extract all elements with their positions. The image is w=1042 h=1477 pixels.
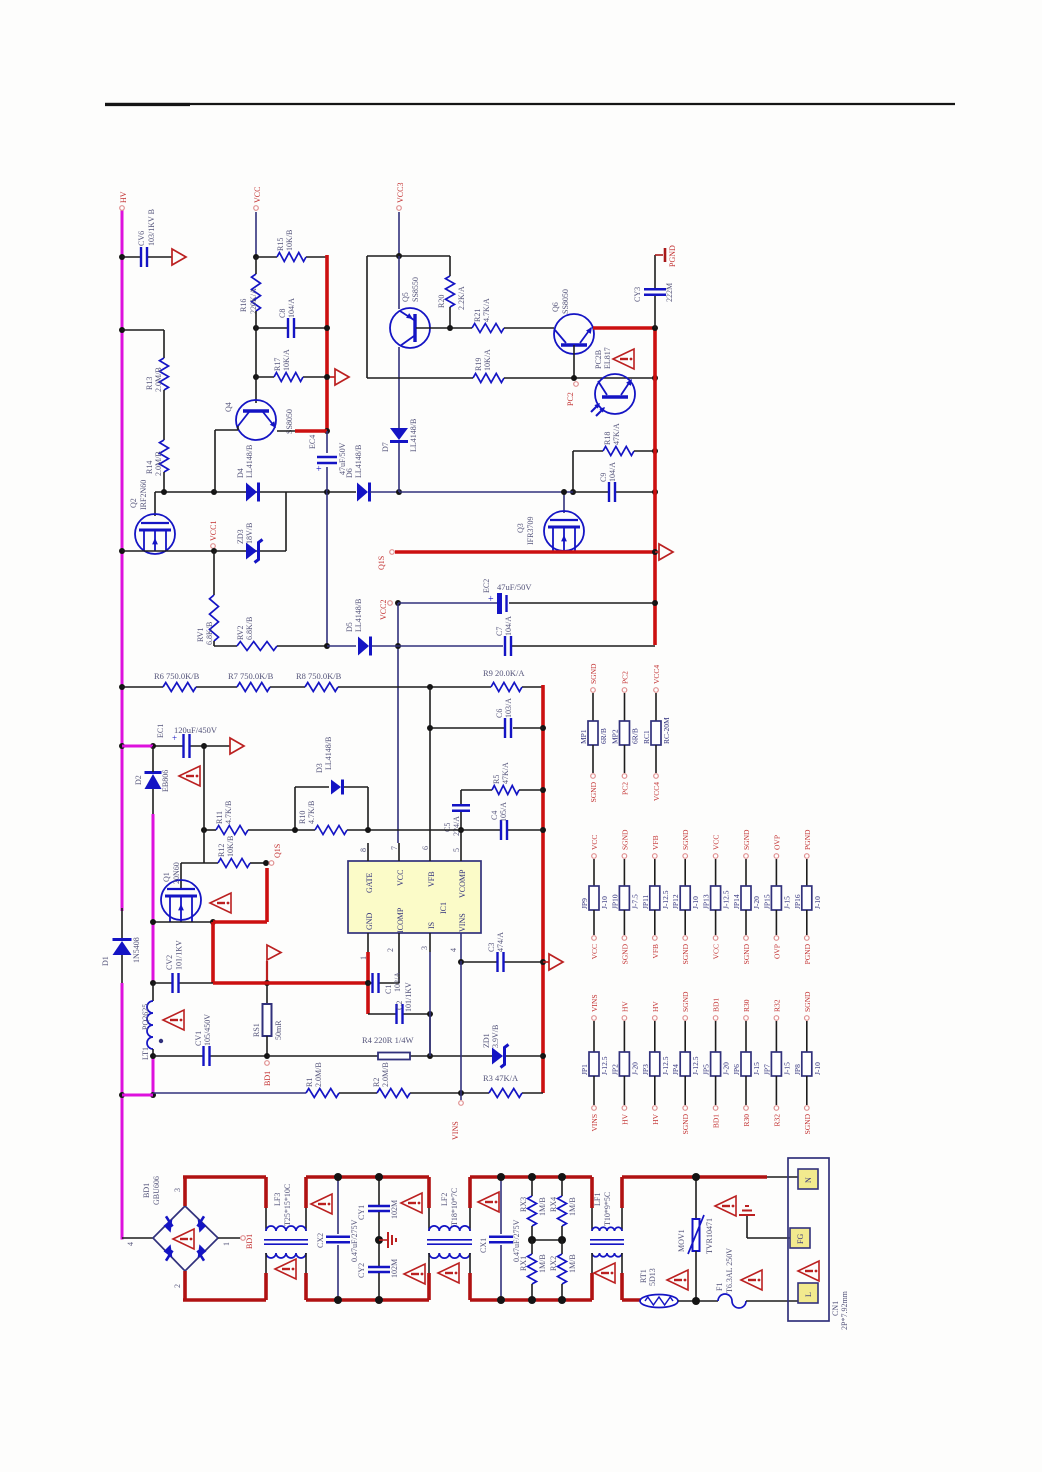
resistor R16 (239, 274, 261, 314)
wire EC4 bottom (326, 467, 328, 646)
wire Q2 gate row (122, 550, 214, 552)
warning triangle LF3 top (311, 1194, 332, 1214)
capacitor CV6 (137, 209, 156, 267)
diode D1 (101, 937, 141, 966)
svg-text:101/1KV: 101/1KV (404, 982, 413, 1012)
svg-text:4: 4 (449, 948, 458, 952)
wire Q6 emitter red (593, 326, 655, 330)
svg-text:LL4148/B: LL4148/B (245, 445, 254, 478)
svg-text:SGND: SGND (681, 1113, 690, 1134)
node pin4 (458, 959, 464, 965)
warning triangle LF3 bottom (275, 1259, 296, 1279)
svg-text:2.0M/B: 2.0M/B (154, 367, 163, 392)
svg-text:D2: D2 (134, 775, 143, 785)
svg-text:HV: HV (651, 1113, 660, 1124)
jumper JP5 (702, 998, 731, 1129)
resistor R20 (437, 276, 466, 310)
svg-text:6.8K/B: 6.8K/B (245, 617, 254, 640)
svg-text:J-10: J-10 (600, 896, 609, 909)
svg-text:RC-20M: RC-20M (662, 717, 671, 744)
wire Q4 emitter red (277, 430, 327, 432)
warning triangle RT1 (667, 1270, 688, 1290)
terminal VCC (253, 187, 262, 211)
svg-text:JP9: JP9 (580, 898, 589, 909)
wire D2 top (152, 746, 154, 772)
svg-text:103/1KV B: 103/1KV B (147, 209, 156, 246)
IC U1 pin stubs top (368, 843, 461, 861)
svg-text:R3 47K/A: R3 47K/A (483, 1073, 519, 1083)
svg-text:R5: R5 (492, 775, 501, 784)
wire HV trunk magenta lower (121, 983, 124, 1240)
wire RS1 bottom (266, 1036, 268, 1056)
node RS1 top (264, 980, 270, 986)
wire VCC3 drop (398, 212, 400, 256)
capacitor C2 (395, 982, 413, 1024)
svg-text:JP11: JP11 (641, 894, 650, 909)
node EC1 (150, 743, 156, 749)
capacitor CY2 (357, 1173, 399, 1304)
wire R11 up (203, 746, 205, 830)
svg-text:RX4: RX4 (549, 1197, 558, 1212)
svg-text:R8 750.0K/B: R8 750.0K/B (296, 671, 342, 681)
terminal PC2 (574, 382, 579, 387)
wire EC4 top (326, 431, 328, 453)
svg-text:10K/A: 10K/A (483, 349, 492, 371)
wire VFB column (429, 687, 431, 843)
svg-text:JP16: JP16 (793, 894, 802, 909)
svg-text:220K/A: 220K/A (249, 288, 258, 314)
resistor R9 (483, 668, 525, 692)
svg-text:D1: D1 (101, 956, 110, 966)
svg-text:102M: 102M (390, 1200, 399, 1219)
warning triangle PC2B (613, 349, 634, 369)
svg-text:HV: HV (651, 1001, 660, 1012)
inductor LT1 primary (141, 983, 163, 1060)
svg-text:HV: HV (119, 191, 128, 203)
terminal VCC3 (396, 183, 405, 211)
svg-text:RX3: RX3 (519, 1197, 528, 1212)
svg-text:N: N (804, 1177, 813, 1183)
capacitor EC4 (308, 435, 347, 475)
svg-text:2.0M/B: 2.0M/B (381, 1062, 390, 1087)
wire GND red (366, 952, 370, 1014)
svg-text:R11: R11 (215, 811, 224, 824)
wire Q1S red row (395, 550, 655, 554)
optocoupler PC2B (591, 347, 635, 416)
wire Q3 drain (563, 492, 565, 513)
resistor RX1 (519, 1240, 547, 1304)
wire Q4 collector (215, 426, 238, 492)
svg-text:OVP: OVP (772, 835, 781, 850)
resistor R10 (298, 801, 347, 835)
transistor Q4 (224, 400, 294, 440)
svg-text:JP5: JP5 (702, 1064, 711, 1075)
svg-text:R6 750.0K/B: R6 750.0K/B (154, 671, 200, 681)
wire VCOMP column (460, 790, 462, 843)
svg-text:JP14: JP14 (732, 894, 741, 909)
capacitor C4 (490, 802, 508, 840)
svg-text:ICOMP: ICOMP (396, 907, 405, 933)
svg-text:VCC: VCC (590, 835, 599, 850)
wire C8 row (256, 327, 327, 329)
svg-text:R14: R14 (145, 461, 154, 474)
svg-text:J-10: J-10 (813, 896, 822, 909)
wire startup row (122, 686, 543, 688)
wire AC to bridge (122, 1237, 153, 1239)
svg-text:T18*10*7C: T18*10*7C (450, 1188, 459, 1226)
capacitor C1 (373, 972, 403, 994)
svg-text:0.47uF/275V: 0.47uF/275V (350, 1219, 359, 1262)
net flag PGND (655, 245, 677, 267)
resistor RV1 (196, 595, 219, 645)
svg-text:SGND: SGND (681, 991, 690, 1012)
svg-text:1M/B: 1M/B (568, 1197, 577, 1216)
svg-text:RV2: RV2 (236, 626, 245, 640)
wire CV6 row (122, 256, 172, 258)
svg-text:VCC4: VCC4 (652, 782, 661, 801)
capacitor C8 (278, 298, 296, 338)
wire pin4 column (460, 961, 462, 1093)
warning triangle CY top (401, 1193, 422, 1213)
svg-text:Q4: Q4 (224, 402, 233, 412)
net label BD1 mid (263, 1071, 272, 1086)
resistor R8 (296, 671, 342, 692)
svg-text:BD1: BD1 (263, 1071, 272, 1086)
jumper JP11 (641, 835, 670, 958)
svg-text:RS1: RS1 (252, 1023, 261, 1037)
svg-text:R4 220R 1/4W: R4 220R 1/4W (362, 1035, 413, 1045)
svg-text:PC2: PC2 (566, 392, 575, 406)
wire R16-R17 (255, 328, 257, 377)
capacitor CY1 (357, 1177, 399, 1240)
svg-text:BD1: BD1 (142, 1183, 151, 1198)
svg-text:10K/A: 10K/A (282, 349, 291, 371)
capacitor CX2 (316, 1173, 359, 1304)
svg-text:8: 8 (359, 848, 368, 852)
wire R17 row (256, 376, 327, 378)
ground flag Q1S rail (655, 544, 673, 560)
svg-text:PC2: PC2 (621, 671, 630, 684)
svg-text:C1: C1 (384, 985, 393, 994)
svg-text:VCC1: VCC1 (209, 521, 218, 541)
svg-text:Q3: Q3 (516, 523, 525, 533)
svg-text:SGND: SGND (681, 829, 690, 850)
svg-text:IRF2N60: IRF2N60 (139, 480, 148, 510)
svg-text:SGND: SGND (589, 663, 598, 684)
wire R15 row (256, 256, 327, 258)
svg-text:2: 2 (386, 948, 395, 952)
wire CY3 column (654, 255, 656, 328)
svg-text:D3: D3 (315, 763, 324, 773)
svg-text:VCC: VCC (590, 944, 599, 959)
thermistor RT1 (639, 1268, 678, 1307)
terminal VINS (451, 1093, 463, 1140)
node R19 junctions (571, 375, 658, 381)
svg-text:MP1: MP1 (579, 729, 588, 744)
svg-text:D5: D5 (345, 622, 354, 632)
svg-text:R7 750.0K/B: R7 750.0K/B (228, 671, 274, 681)
resistor R6 (154, 671, 200, 692)
AC top rail (183, 1177, 266, 1206)
wire Q1 source row (153, 921, 213, 923)
svg-text:103/A: 103/A (504, 698, 513, 718)
svg-text:R30: R30 (742, 1114, 751, 1127)
wire R20 bottom (449, 307, 451, 328)
svg-text:7: 7 (390, 846, 399, 850)
node LT1 bottom (150, 1053, 156, 1098)
transistor Q3 (516, 511, 584, 551)
wire RS1 red drop (211, 922, 215, 983)
capacitor C7 (495, 616, 513, 656)
wire R21 row (450, 327, 554, 329)
wire Q6 base stub (573, 345, 575, 378)
red rail 655 (653, 326, 657, 645)
svg-text:J-15: J-15 (752, 1062, 761, 1075)
svg-text:3.9V/B: 3.9V/B (491, 1025, 500, 1048)
svg-text:J-7.5: J-7.5 (630, 894, 639, 909)
svg-text:CV2: CV2 (165, 955, 174, 970)
terminal VCC1 (211, 544, 216, 549)
svg-text:BD1: BD1 (712, 998, 721, 1012)
wire R18 left (573, 451, 603, 492)
wire CV2 row (153, 982, 213, 984)
svg-text:C7: C7 (495, 627, 504, 636)
svg-text:47K/A: 47K/A (612, 423, 621, 445)
svg-text:D6: D6 (345, 468, 354, 478)
svg-text:VCC: VCC (712, 835, 721, 850)
AC rail seg3 bottom (470, 1298, 592, 1302)
wire R13 top (122, 330, 164, 358)
svg-text:CY1: CY1 (357, 1205, 366, 1220)
resistor R11 (215, 801, 248, 835)
wire VCC3 left branch (367, 256, 399, 378)
wire Q4 base (255, 377, 257, 403)
svg-text:105/A: 105/A (499, 802, 508, 822)
svg-text:47K/A: 47K/A (501, 762, 510, 784)
wire R16 stub (255, 257, 257, 328)
wire R1 row (153, 1092, 543, 1094)
svg-text:J-12.5: J-12.5 (600, 1056, 609, 1075)
svg-text:IC1: IC1 (439, 902, 448, 914)
resistor RX3 (519, 1173, 547, 1240)
svg-text:120uF/450V: 120uF/450V (174, 725, 218, 735)
wire Q2 drain (154, 492, 156, 516)
svg-text:VCC3: VCC3 (396, 183, 405, 203)
svg-text:T6.3AL 250V: T6.3AL 250V (725, 1248, 734, 1293)
svg-text:JP1: JP1 (580, 1064, 589, 1075)
svg-text:HV: HV (620, 1001, 629, 1012)
svg-text:LT1: LT1 (141, 1047, 150, 1060)
wire CV1 row (153, 1055, 267, 1057)
svg-text:T10*9*5C: T10*9*5C (603, 1192, 612, 1226)
node R20 (447, 325, 453, 331)
svg-text:FG: FG (796, 1234, 805, 1244)
svg-text:J-15: J-15 (782, 1062, 791, 1075)
svg-text:CY2: CY2 (357, 1263, 366, 1278)
wire VCC red rail (325, 255, 329, 431)
svg-text:J-10: J-10 (691, 896, 700, 909)
svg-text:GBU606: GBU606 (152, 1176, 161, 1205)
connector pin L (798, 1283, 818, 1303)
wire RX mid (528, 1236, 566, 1244)
terminal HV (120, 206, 125, 211)
wire HV-D2 (122, 745, 153, 748)
choke LF3 (264, 1177, 308, 1300)
svg-text:1M/B: 1M/B (538, 1197, 547, 1216)
resistor R13 (145, 358, 169, 392)
svg-text:224/A: 224/A (452, 816, 461, 836)
terminal Q1S right (377, 550, 394, 570)
svg-text:PGND: PGND (803, 829, 812, 850)
svg-text:C9: C9 (599, 473, 608, 482)
node rail655 (652, 325, 658, 606)
warning triangle Q1 (210, 893, 231, 913)
svg-text:6.8K/B: 6.8K/B (205, 622, 214, 645)
wire VCC2 drop (397, 603, 399, 843)
jumper JP12 (671, 829, 700, 964)
node VCC ladder (253, 254, 259, 380)
svg-text:0.47uF/275V: 0.47uF/275V (512, 1219, 521, 1262)
svg-text:CX1: CX1 (479, 1238, 488, 1253)
svg-text:C3: C3 (487, 943, 496, 952)
svg-text:VCC: VCC (396, 870, 405, 886)
ground flag EC1 (230, 738, 244, 754)
terminal VCC2 (379, 600, 392, 620)
resistor R19 (473, 349, 504, 383)
wire EC2 row (398, 602, 655, 604)
jumper MP1 (579, 663, 608, 802)
svg-text:10K/B: 10K/B (285, 230, 294, 251)
svg-text:3: 3 (420, 946, 429, 950)
wire R18 right (634, 450, 655, 452)
node C9 (652, 489, 658, 495)
svg-text:4.7K/A: 4.7K/A (482, 298, 491, 322)
IC U1 body (348, 861, 481, 933)
svg-text:J-12.5: J-12.5 (661, 1056, 670, 1075)
resistor R5 (492, 762, 519, 795)
node 153-983 (150, 980, 156, 986)
svg-text:R18: R18 (603, 432, 612, 445)
capacitor C5 (443, 805, 470, 836)
svg-text:474/A: 474/A (496, 932, 505, 952)
varistor MOV1 (677, 1173, 714, 1301)
zener ZD3 (236, 523, 263, 563)
svg-text:2: 2 (173, 1284, 182, 1288)
node rail543 (540, 725, 546, 1059)
capacitor CV1 (194, 1014, 212, 1066)
svg-text:PC2: PC2 (621, 782, 630, 795)
svg-text:LL4148/B: LL4148/B (409, 419, 418, 452)
svg-text:4.7K/B: 4.7K/B (224, 801, 233, 824)
svg-text:EC1: EC1 (156, 724, 165, 738)
node red rail 327 (324, 325, 330, 434)
svg-text:RX2: RX2 (549, 1256, 558, 1271)
node Q2 drain junctions (161, 489, 330, 495)
resistor R4 (362, 1035, 413, 1060)
node D6-D7 (396, 489, 402, 495)
page header rule (105, 103, 955, 106)
svg-text:6: 6 (421, 846, 430, 850)
resistor R3 (483, 1073, 522, 1098)
svg-text:EC2: EC2 (482, 579, 491, 593)
net label PC2 (566, 392, 575, 406)
node R12 (263, 860, 269, 866)
svg-text:102M: 102M (390, 1259, 399, 1278)
svg-text:RX1: RX1 (519, 1256, 528, 1271)
node R10 (201, 827, 371, 833)
svg-text:PGND: PGND (668, 245, 677, 267)
capacitor C3 (487, 932, 505, 972)
svg-text:R17: R17 (273, 358, 282, 371)
svg-text:JP7: JP7 (762, 1064, 771, 1075)
svg-text:MOV1: MOV1 (677, 1229, 686, 1252)
wire HV trunk lower (121, 908, 123, 1095)
wire C4 row (461, 829, 543, 831)
wire C9 row (399, 491, 655, 493)
diode D2 (134, 770, 170, 792)
earth at CY mid (379, 1232, 396, 1248)
svg-text:L: L (804, 1292, 813, 1297)
jumper MP2 (611, 671, 640, 795)
svg-text:50mR: 50mR (274, 1020, 283, 1040)
node VCC3 (396, 253, 402, 259)
svg-text:T25*15*10C: T25*15*10C (283, 1184, 292, 1226)
node VCC2 drop (395, 643, 401, 649)
wire EC1 row (153, 745, 230, 747)
svg-text:+: + (316, 464, 322, 475)
choke LF2 (427, 1177, 472, 1300)
svg-text:4.7K/B: 4.7K/B (307, 801, 316, 824)
wire D6 row (327, 491, 399, 493)
transistor Q5 (390, 256, 430, 348)
jumper RC1 (642, 665, 671, 802)
wire RS1 top (266, 983, 268, 1004)
resistor R15 (276, 230, 306, 262)
svg-text:CN1: CN1 (831, 1301, 840, 1316)
svg-text:JP13: JP13 (702, 894, 711, 909)
wire magenta 153 (152, 814, 155, 983)
svg-text:LF3: LF3 (273, 1193, 282, 1206)
svg-text:R32: R32 (772, 999, 781, 1012)
svg-text:JP4: JP4 (671, 1064, 680, 1075)
svg-text:105/450V: 105/450V (203, 1014, 212, 1046)
node C2 (427, 1011, 433, 1017)
wire RV2 right (277, 645, 327, 647)
wire C3 row (461, 961, 543, 963)
svg-text:F1: F1 (715, 1283, 724, 1291)
capacitor EC2 (482, 579, 532, 614)
transistor Q2 (129, 480, 175, 554)
AC rail seg4 bottom (622, 1298, 641, 1302)
svg-text:SS8550: SS8550 (411, 277, 420, 302)
node VFB (427, 725, 433, 731)
wire VCC drop (255, 212, 257, 257)
svg-text:SGND: SGND (803, 991, 812, 1012)
svg-text:103/A: 103/A (393, 972, 402, 992)
svg-text:J-15: J-15 (782, 896, 791, 909)
jumper JP3 (641, 1001, 670, 1125)
svg-text:1M/B: 1M/B (568, 1254, 577, 1273)
svg-text:SGND: SGND (742, 829, 751, 850)
svg-text:104/A: 104/A (287, 298, 296, 318)
choke LF1 (590, 1177, 624, 1300)
svg-text:JP12: JP12 (671, 894, 680, 909)
svg-text:PQ2625: PQ2625 (141, 1004, 150, 1030)
svg-text:VCOMP: VCOMP (458, 869, 467, 898)
svg-text:104/A: 104/A (504, 616, 513, 636)
wire FG (747, 1216, 790, 1238)
svg-text:2.2K/A: 2.2K/A (457, 286, 466, 310)
